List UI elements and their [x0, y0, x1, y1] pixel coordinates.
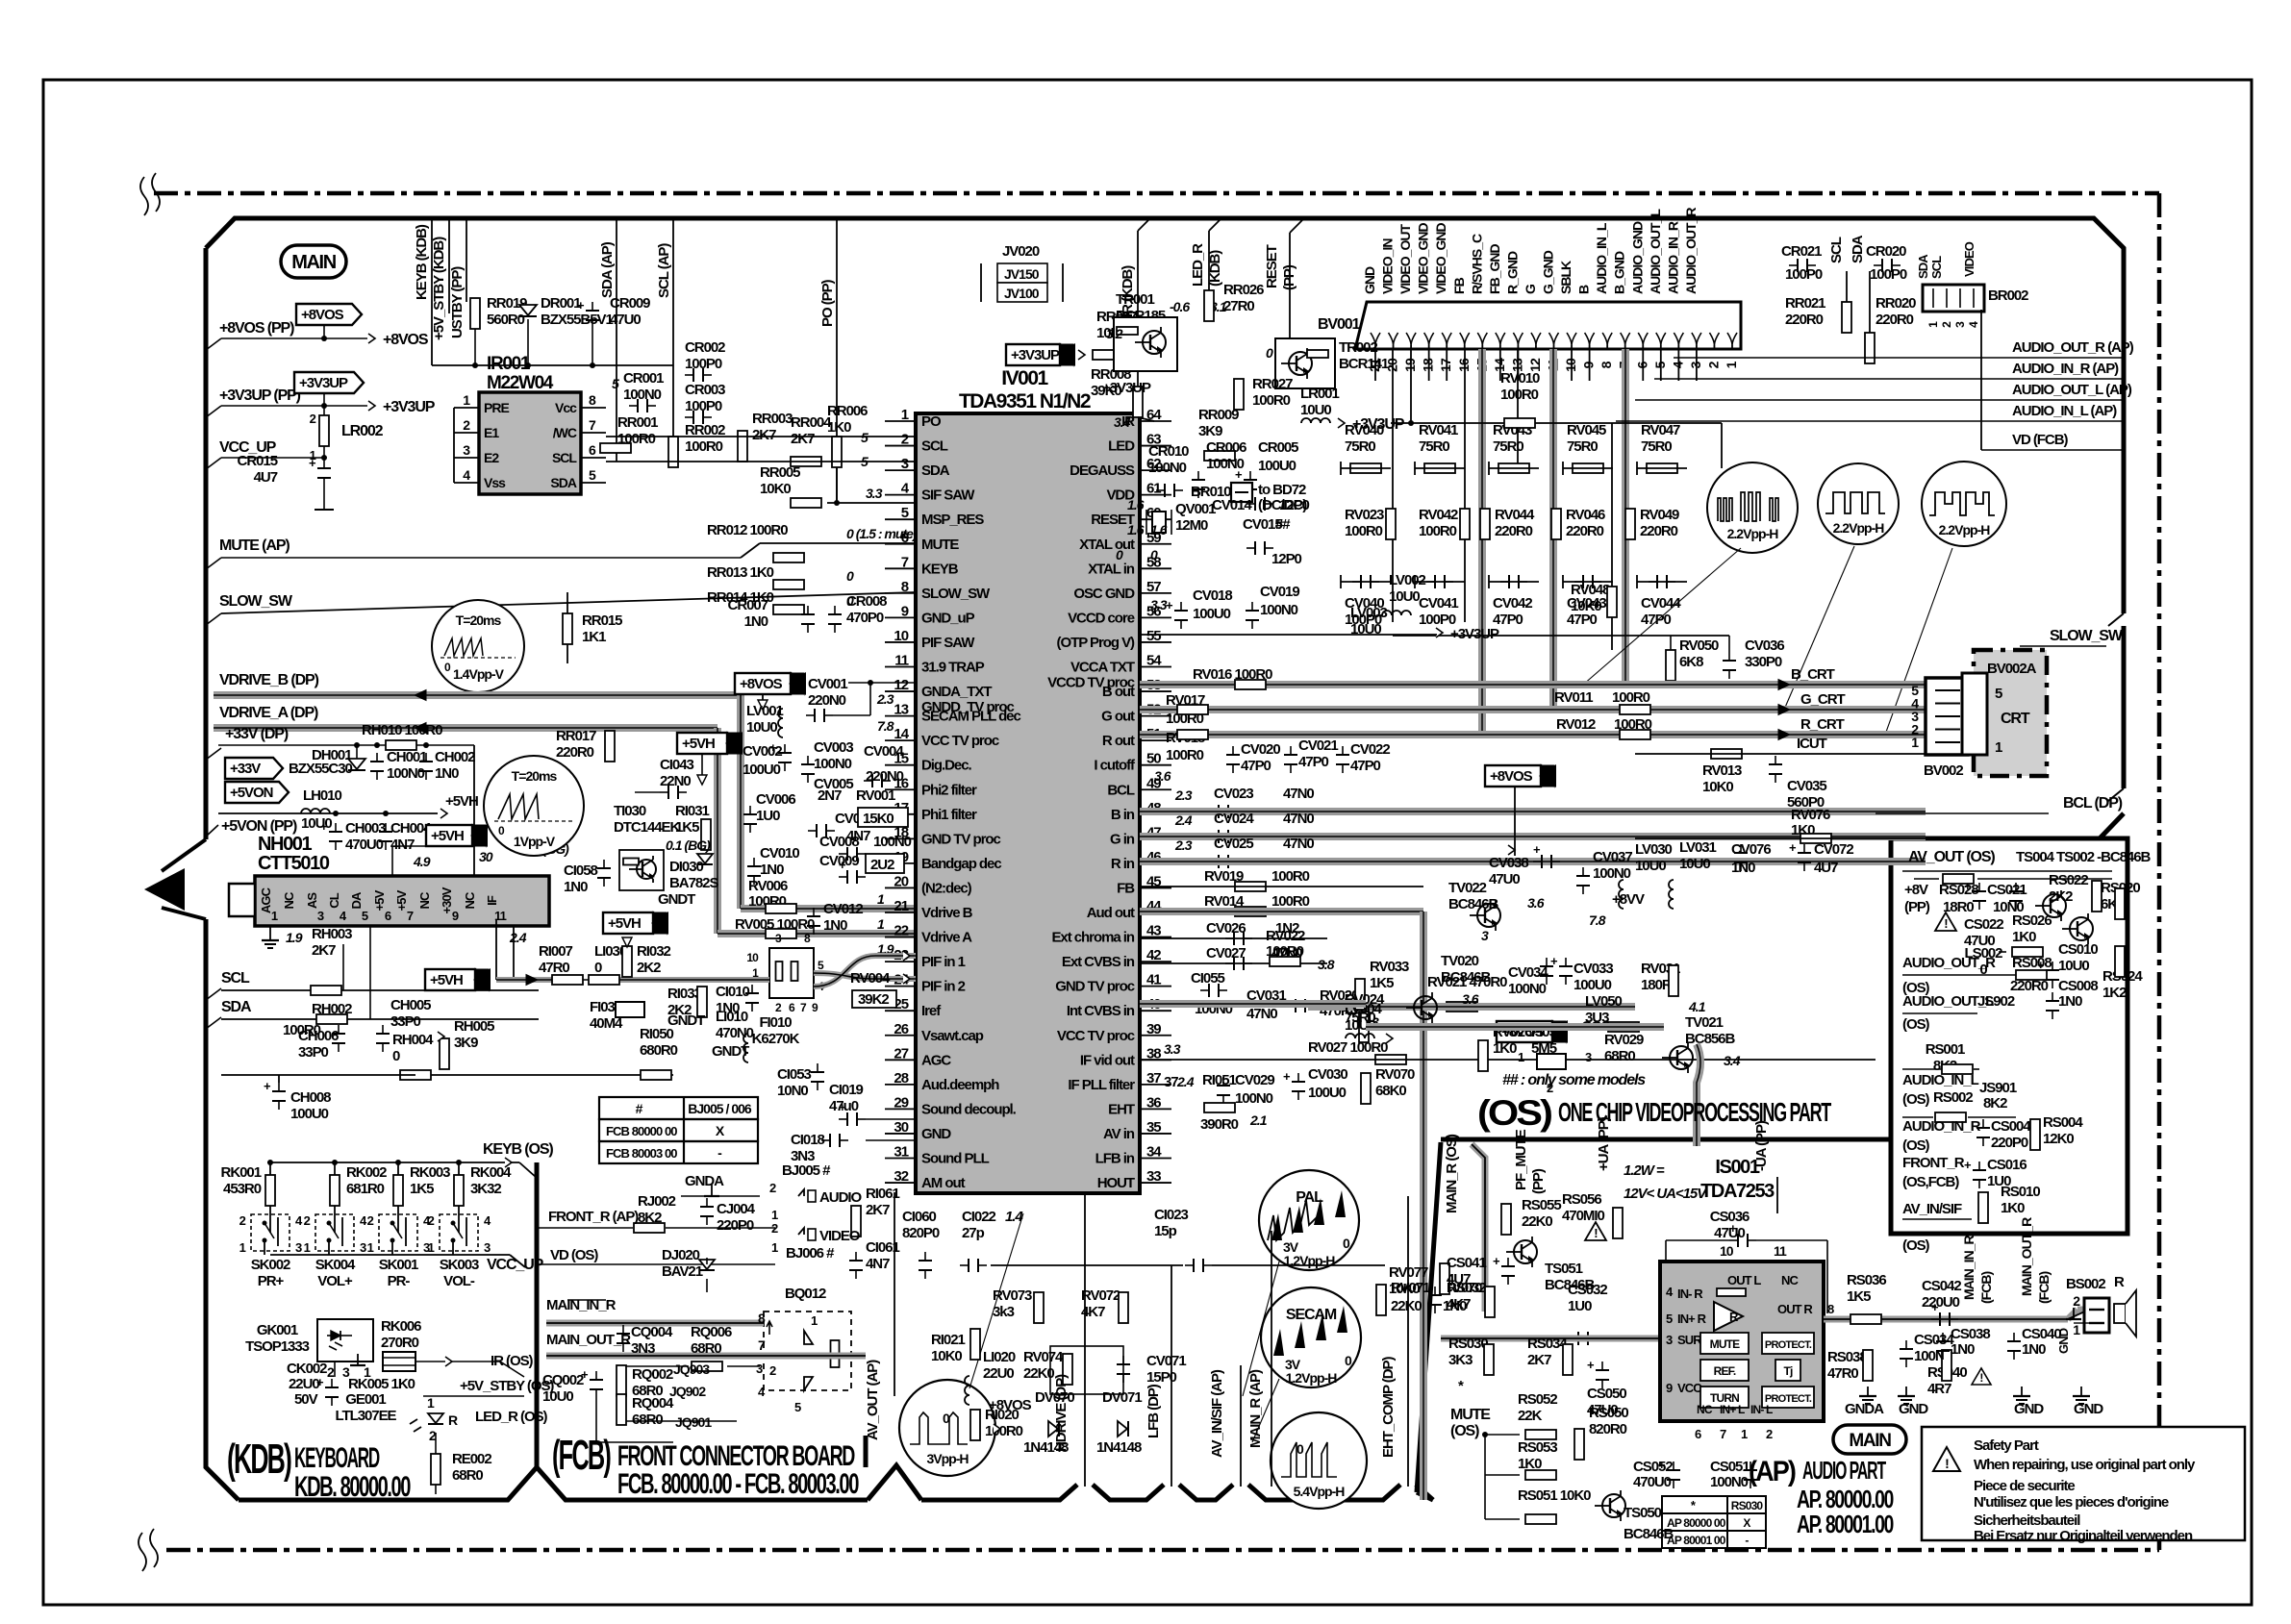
svg-text:PROTECT.: PROTECT.: [1765, 1339, 1812, 1351]
bus R out: [1140, 731, 1926, 738]
jack BJ006: [798, 1228, 804, 1235]
svg-text:BJ005 #: BJ005 #: [782, 1162, 831, 1179]
svg-text:IF PLL filter: IF PLL filter: [1068, 1077, 1135, 1093]
waveform leader SECAM: [1252, 1379, 1279, 1442]
svg-text:(OS): (OS): [1450, 1423, 1479, 1439]
svg-text:RQ006: RQ006: [691, 1324, 732, 1340]
svg-text:CL: CL: [327, 892, 341, 908]
svg-text:RV010: RV010: [1500, 370, 1540, 387]
svg-text:OSC GND: OSC GND: [1073, 586, 1135, 602]
svg-text:AUDIO_OUT_L: AUDIO_OUT_L: [1648, 209, 1663, 294]
svg-text:560R0: 560R0: [487, 312, 525, 328]
svg-text:BV002A: BV002A: [1987, 661, 2037, 677]
svg-text:4.1: 4.1: [1688, 999, 1706, 1014]
svg-text:1N0: 1N0: [2022, 1341, 2046, 1358]
svg-text:3K9: 3K9: [1198, 423, 1222, 439]
svg-text:CH005: CH005: [390, 997, 431, 1013]
svg-text:CV071: CV071: [1146, 1353, 1186, 1369]
svg-text:CS022: CS022: [1964, 916, 2003, 933]
voltage tag +33V: [225, 758, 283, 779]
bus R video down: [1478, 349, 1486, 735]
svg-text:PO (PP): PO (PP): [819, 279, 836, 327]
svg-text:GNDA: GNDA: [1845, 1401, 1884, 1417]
svg-text:100R0: 100R0: [1252, 392, 1291, 409]
waveform circle 2.2Vpp-H comb: [1707, 462, 1798, 553]
svg-text:(AP): (AP): [1749, 1456, 1796, 1487]
svg-text:2K7: 2K7: [866, 1202, 890, 1218]
svg-text:CV036: CV036: [1745, 637, 1784, 654]
svg-text:RI051: RI051: [1202, 1072, 1236, 1088]
svg-text:470P0: 470P0: [846, 610, 884, 626]
svg-text:AUDIO_IN_L: AUDIO_IN_L: [1594, 222, 1609, 294]
svg-text:CR002: CR002: [685, 339, 725, 356]
svg-text:+5V_STBY (KDB): +5V_STBY (KDB): [431, 237, 447, 340]
svg-text:75R0: 75R0: [1567, 438, 1598, 455]
svg-text:2K2: 2K2: [2049, 888, 2073, 905]
svg-text:RV074: RV074: [1023, 1349, 1064, 1365]
svg-text:CV001: CV001: [808, 676, 847, 692]
svg-text:RR006: RR006: [827, 403, 868, 419]
svg-text:FRONT_R (AP): FRONT_R (AP): [548, 1209, 639, 1225]
svg-text:5: 5: [589, 467, 596, 483]
svg-text:(FCB): (FCB): [2036, 1271, 2052, 1304]
connector BR002: [1923, 285, 1984, 312]
svg-text:CS051: CS051: [1710, 1459, 1750, 1475]
wire pin6 +5V: [391, 846, 393, 876]
svg-text:Bandgap dec: Bandgap dec: [921, 856, 1001, 872]
svg-text:ICUT: ICUT: [1797, 736, 1827, 752]
svg-text:X: X: [1743, 1516, 1750, 1530]
svg-text:30: 30: [479, 849, 493, 864]
svg-text:CI060: CI060: [902, 1209, 936, 1225]
svg-text:QV001: QV001: [1175, 501, 1216, 517]
svg-text:1: 1: [367, 1240, 374, 1255]
svg-text:LV031: LV031: [1679, 839, 1717, 856]
svg-text:B in: B in: [1111, 807, 1135, 823]
svg-text:1: 1: [877, 891, 885, 907]
voltage tag +5VH 2: [425, 969, 475, 990]
svg-text:AUDIO_IN_R: AUDIO_IN_R: [1665, 221, 1680, 294]
svg-text:100P0: 100P0: [1870, 266, 1907, 283]
svg-text:RV049: RV049: [1640, 507, 1679, 523]
board boundary dash-dot right: [2157, 193, 2162, 1550]
svg-text:0: 0: [846, 568, 854, 584]
svg-text:DV071: DV071: [1102, 1389, 1142, 1406]
svg-text:+5VH: +5VH: [431, 828, 464, 844]
svg-text:IN- L: IN- L: [1750, 1403, 1773, 1416]
svg-text:2K7: 2K7: [312, 942, 336, 959]
svg-text:SDA: SDA: [221, 999, 252, 1015]
svg-text:47N0: 47N0: [1283, 836, 1314, 852]
svg-text:USTBY (PP): USTBY (PP): [449, 266, 466, 338]
svg-text:CR005: CR005: [1258, 439, 1298, 456]
svg-text:RE002: RE002: [452, 1451, 491, 1467]
svg-text:33P0: 33P0: [298, 1044, 329, 1061]
OS AP divider outline: [1441, 1137, 1891, 1142]
svg-text:SCL: SCL: [552, 450, 577, 465]
svg-text:CS034: CS034: [1914, 1332, 1954, 1348]
svg-text:1: 1: [463, 392, 470, 408]
svg-text:AP 80001 00: AP 80001 00: [1667, 1534, 1726, 1547]
svg-text:CR007: CR007: [728, 597, 768, 613]
svg-text:JV100: JV100: [1004, 286, 1040, 301]
svg-text:!: !: [1945, 1456, 1949, 1471]
svg-text:VCC TV proc: VCC TV proc: [1057, 1028, 1135, 1044]
svg-text:VCC: VCC: [1677, 1381, 1702, 1395]
svg-text:RV050: RV050: [1679, 637, 1719, 654]
wires audio to AP: [1674, 357, 2008, 359]
svg-text:DI030: DI030: [669, 859, 703, 875]
svg-text:1N0: 1N0: [760, 862, 784, 878]
svg-text:CV025: CV025: [1214, 836, 1253, 852]
svg-text:KEYBOARD: KEYBOARD: [294, 1442, 380, 1474]
svg-text:R_GND: R_GND: [1504, 251, 1520, 294]
svg-text:+5VH: +5VH: [682, 736, 715, 752]
waveform circle 5.4Vpp-H: [1271, 1412, 1367, 1509]
svg-text:SDA: SDA: [550, 475, 576, 490]
wire +3V3UP rail: [1391, 422, 1722, 424]
svg-text:CV035: CV035: [1787, 778, 1826, 794]
svg-text:1N4148: 1N4148: [1096, 1439, 1142, 1456]
svg-text:CI010: CI010: [716, 984, 749, 1000]
svg-text:10: 10: [1720, 1243, 1734, 1259]
svg-text:TV020: TV020: [1441, 953, 1479, 969]
svg-text:RR004: RR004: [791, 414, 832, 431]
svg-text:G in: G in: [1110, 831, 1135, 847]
svg-text:RR026: RR026: [1223, 282, 1264, 298]
svg-text:3: 3: [1688, 361, 1703, 368]
svg-text:VIDEO: VIDEO: [819, 1228, 861, 1244]
svg-text:0: 0: [1150, 547, 1158, 562]
svg-text:VDRIVE_B (DP): VDRIVE_B (DP): [219, 672, 319, 688]
svg-text:RS051 10K0: RS051 10K0: [1518, 1487, 1591, 1504]
svg-text:1.9: 1.9: [286, 930, 303, 945]
svg-text:E1: E1: [484, 425, 499, 440]
svg-text:IS001: IS001: [1715, 1157, 1760, 1178]
svg-text:RI021: RI021: [931, 1332, 965, 1348]
svg-text:2.3: 2.3: [1174, 787, 1193, 803]
svg-text:100R0: 100R0: [1500, 387, 1539, 403]
svg-text:GND TV proc: GND TV proc: [921, 831, 1000, 847]
svg-text:68R0: 68R0: [452, 1467, 483, 1484]
svg-text:RK002: RK002: [346, 1164, 387, 1181]
svg-text:Ext chroma in: Ext chroma in: [1051, 930, 1134, 946]
svg-text:XTAL in: XTAL in: [1088, 561, 1135, 577]
svg-text:CV042: CV042: [1493, 595, 1532, 612]
svg-text:BJ006 #: BJ006 #: [786, 1245, 835, 1262]
svg-text:LI010: LI010: [716, 1009, 748, 1025]
svg-text:0: 0: [392, 1048, 400, 1064]
svg-text:RS010: RS010: [2001, 1184, 2040, 1200]
svg-text:270R0: 270R0: [381, 1335, 419, 1351]
resistor RV049: [1625, 509, 1635, 539]
svg-text:IR001: IR001: [487, 354, 531, 374]
svg-text:BC856B: BC856B: [1685, 1031, 1735, 1047]
svg-text:+3V3UP: +3V3UP: [1102, 380, 1151, 396]
svg-text:75R0: 75R0: [1493, 438, 1523, 455]
bus PIF from tuner: [495, 919, 497, 980]
svg-text:LR002: LR002: [341, 423, 384, 439]
svg-text:4.9: 4.9: [413, 854, 431, 869]
svg-text:16: 16: [1456, 358, 1472, 372]
svg-text:RS050: RS050: [1589, 1405, 1628, 1421]
svg-text:CV019: CV019: [1260, 584, 1299, 600]
svg-text:RR013 1K0: RR013 1K0: [707, 564, 774, 581]
svg-text:+3V3UP (PP): +3V3UP (PP): [219, 387, 301, 404]
svg-text:N'utilisez que les pieces d'or: N'utilisez que les pieces d'origine: [1974, 1494, 2169, 1511]
switch SK001: [379, 1214, 417, 1251]
svg-text:RR015: RR015: [582, 612, 622, 629]
svg-text:RR001: RR001: [617, 414, 658, 431]
KDB FCB divider: [535, 1162, 540, 1467]
svg-text:NC: NC: [417, 891, 432, 909]
svg-text:1K0: 1K0: [2001, 1200, 2025, 1216]
svg-text:27p: 27p: [962, 1225, 985, 1241]
svg-text:100U0: 100U0: [1258, 458, 1297, 474]
svg-text:47R0: 47R0: [1827, 1365, 1858, 1382]
svg-text:TR001: TR001: [1116, 291, 1154, 308]
svg-text:2: 2: [769, 1363, 776, 1378]
svg-text:1: 1: [1995, 739, 2002, 756]
connector BV002: [1926, 678, 1968, 755]
svg-text:100U0: 100U0: [1193, 606, 1231, 622]
svg-text:0: 0: [1343, 1236, 1350, 1251]
svg-text:GNDA: GNDA: [685, 1173, 724, 1189]
svg-text:VCCD TV proc: VCCD TV proc: [1047, 675, 1135, 691]
svg-text:+8VOS (PP): +8VOS (PP): [219, 320, 294, 337]
svg-text:3K3: 3K3: [1448, 1352, 1473, 1368]
svg-text:CV027: CV027: [1206, 945, 1246, 962]
svg-text:IF vid out: IF vid out: [1080, 1052, 1135, 1068]
waveform circle T=20ms 1Vpp-V: [484, 756, 584, 856]
svg-text:VIDEO_GND: VIDEO_GND: [1433, 222, 1448, 294]
voltage tag +5VH 3: [603, 912, 653, 934]
svg-text:CV072: CV072: [1814, 841, 1853, 858]
svg-text:2: 2: [1705, 361, 1721, 368]
svg-text:68K0: 68K0: [1375, 1083, 1406, 1099]
svg-text:JQ903: JQ903: [673, 1362, 710, 1377]
svg-text:47P0: 47P0: [1241, 758, 1271, 774]
svg-text:IF: IF: [485, 895, 499, 906]
svg-text:RR017: RR017: [556, 728, 596, 744]
top exit PO (PP): [836, 218, 838, 317]
svg-text:2U2: 2U2: [870, 857, 894, 873]
svg-text:0: 0: [943, 1411, 950, 1426]
svg-text:GND: GND: [1362, 266, 1377, 294]
svg-text:CR020: CR020: [1866, 243, 1906, 260]
svg-text:470U0: 470U0: [345, 837, 384, 853]
switch SK003: [440, 1214, 478, 1251]
svg-text:OUT L: OUT L: [1727, 1273, 1761, 1287]
svg-text:5.4Vpp-H: 5.4Vpp-H: [1294, 1484, 1346, 1499]
svg-text:RV073: RV073: [993, 1287, 1032, 1304]
svg-text:CV008: CV008: [819, 834, 859, 850]
voltage tag +5VON: [225, 782, 289, 803]
svg-text:68R0: 68R0: [632, 1412, 663, 1428]
svg-text:CV012: CV012: [823, 901, 863, 917]
svg-text:(PP): (PP): [1281, 264, 1297, 290]
svg-text:VD (FCB): VD (FCB): [2012, 432, 2068, 448]
svg-text:1: 1: [304, 1240, 311, 1255]
capacitor CV041: [1434, 575, 1436, 588]
svg-text:820P0: 820P0: [902, 1225, 940, 1241]
svg-text:2: 2: [239, 1213, 246, 1228]
svg-text:18: 18: [1421, 358, 1436, 372]
svg-text:AUDIO_OUT_R: AUDIO_OUT_R: [1683, 208, 1699, 294]
svg-text:8: 8: [1827, 1302, 1834, 1316]
svg-text:3: 3: [1481, 928, 1489, 943]
svg-text:BCL: BCL: [1107, 782, 1135, 798]
svg-text:CV014: CV014: [1212, 497, 1252, 513]
svg-text:RS002: RS002: [1933, 1089, 1973, 1106]
svg-text:10U0: 10U0: [542, 1388, 573, 1405]
svg-text:2: 2: [2073, 1293, 2080, 1309]
svg-text:7.8: 7.8: [877, 718, 894, 734]
svg-text:+5V_STBY (OS): +5V_STBY (OS): [460, 1378, 554, 1394]
svg-text:!: !: [1979, 1371, 1982, 1385]
svg-text:2: 2: [771, 1221, 778, 1236]
svg-text:!: !: [1944, 916, 1948, 931]
resistor RV042: [1460, 509, 1470, 539]
svg-text:1N0: 1N0: [435, 765, 459, 782]
svg-text:LH010: LH010: [303, 787, 341, 804]
svg-text:0.1 (BG): 0.1 (BG): [666, 837, 711, 853]
tuner ground: [269, 931, 271, 940]
svg-text:Vdrive A: Vdrive A: [921, 930, 972, 946]
svg-text:KDB. 80000.00: KDB. 80000.00: [294, 1471, 411, 1503]
waveform leader 3Vpp: [969, 1213, 1023, 1388]
top exit +5V_STBY (KDB): [448, 218, 450, 313]
svg-text:AUDIO_OUT_L (AP): AUDIO_OUT_L (AP): [2012, 382, 2132, 398]
svg-text:1: 1: [811, 1313, 818, 1328]
svg-text:0: 0: [1116, 547, 1123, 562]
svg-text:RV048: RV048: [1571, 582, 1610, 598]
svg-text:VIDEO_IN: VIDEO_IN: [1380, 238, 1396, 294]
svg-text:12P0: 12P0: [1271, 551, 1302, 567]
svg-text:LTL307EE: LTL307EE: [335, 1408, 396, 1424]
svg-text:LED_R: LED_R: [1190, 243, 1206, 287]
svg-text:3.4: 3.4: [1724, 1053, 1741, 1068]
waveform circle 2.2Vpp-H steps1: [1818, 463, 1899, 544]
svg-text:(KDB): (KDB): [227, 1436, 291, 1483]
svg-text:RS022: RS022: [2049, 872, 2088, 888]
capacitor CR009: [586, 310, 599, 312]
svg-text:220N0: 220N0: [866, 768, 904, 785]
svg-text:AUDIO_IN_R: AUDIO_IN_R: [1902, 1118, 1981, 1135]
svg-text:2: 2: [428, 1213, 435, 1228]
svg-text:12P0: 12P0: [1279, 497, 1310, 513]
svg-text:RK001: RK001: [221, 1164, 262, 1181]
svg-text:Phi1 filter: Phi1 filter: [921, 807, 977, 823]
svg-text:-0.6: -0.6: [1170, 299, 1190, 314]
svg-text:AUDIO_IN_L (AP): AUDIO_IN_L (AP): [2012, 403, 2117, 419]
warning triangle AP1: [1585, 1222, 1606, 1240]
svg-text:1K0: 1K0: [827, 419, 851, 436]
break mark top-left: [140, 173, 160, 215]
svg-text:(OS,FCB): (OS,FCB): [1902, 1174, 1959, 1190]
svg-text:RR020: RR020: [1876, 295, 1916, 312]
svg-text:100R0: 100R0: [1345, 523, 1383, 539]
svg-text:8: 8: [589, 392, 596, 408]
svg-text:+8VOS: +8VOS: [989, 1397, 1032, 1413]
svg-text:#: #: [636, 1101, 643, 1116]
MAIN oval AP: [1833, 1425, 1906, 1454]
svg-text:100N0: 100N0: [1710, 1474, 1749, 1490]
svg-text:12K0: 12K0: [2043, 1131, 2074, 1147]
IC IV001 TDA9351 body: [916, 413, 1140, 1193]
wire tuner IF down: [513, 926, 515, 980]
svg-text:AV_OUT (OS): AV_OUT (OS): [1908, 849, 1995, 865]
svg-text:Dig.Dec.: Dig.Dec.: [921, 758, 971, 774]
svg-text:2: 2: [304, 1213, 311, 1228]
svg-text:453R0: 453R0: [223, 1181, 262, 1197]
waveform circle T=20ms 1.4Vpp-V: [432, 600, 524, 692]
bottom exit wires: [1084, 1192, 1086, 1487]
svg-text:+3V3UP: +3V3UP: [299, 375, 348, 391]
svg-text:+8V: +8V: [1904, 882, 1928, 898]
svg-text:AM out: AM out: [921, 1175, 966, 1191]
svg-text:+8VOS: +8VOS: [1490, 768, 1533, 785]
svg-text:1N0: 1N0: [2058, 993, 2082, 1010]
svg-text:CR009: CR009: [610, 295, 650, 312]
capacitor CV044: [1656, 575, 1658, 588]
svg-text:1: 1: [2073, 1322, 2080, 1337]
svg-text:GNDT: GNDT: [712, 1043, 749, 1060]
svg-text:1U0: 1U0: [1568, 1298, 1592, 1314]
svg-text:IN- R: IN- R: [1677, 1287, 1703, 1301]
svg-text:220R0: 220R0: [1876, 312, 1914, 328]
svg-text:AS: AS: [305, 892, 319, 909]
warning triangle AP2: [1972, 1368, 1991, 1385]
svg-text:5: 5: [861, 430, 869, 445]
svg-text:47N0: 47N0: [1246, 1006, 1277, 1022]
svg-text:PIF SAW: PIF SAW: [921, 635, 975, 651]
svg-text:SLOW_SW: SLOW_SW: [219, 593, 293, 610]
svg-text:B: B: [1576, 285, 1592, 294]
svg-text:CV010: CV010: [760, 845, 799, 862]
top exit KEYB (KDB): [431, 218, 433, 365]
svg-text:220P0: 220P0: [1991, 1135, 2028, 1151]
svg-text:RV046: RV046: [1566, 507, 1605, 523]
svg-text:+3V3UP: +3V3UP: [1011, 347, 1060, 363]
svg-text:GND: GND: [2014, 1401, 2044, 1417]
top exit SDA (AP): [616, 218, 617, 288]
svg-text:3.3: 3.3: [1150, 597, 1168, 612]
svg-text:5: 5: [612, 376, 619, 391]
svg-text:MUTE: MUTE: [921, 537, 959, 553]
svg-text:1: 1: [1724, 361, 1739, 368]
svg-text:RK005 1K0: RK005 1K0: [348, 1376, 415, 1392]
resistor RV046: [1551, 509, 1561, 539]
svg-text:REF.: REF.: [1714, 1364, 1736, 1378]
svg-text:22U0: 22U0: [983, 1365, 1014, 1382]
svg-text:220R0: 220R0: [1566, 523, 1604, 539]
svg-text:BAV21: BAV21: [662, 1263, 703, 1280]
svg-text:RK004: RK004: [470, 1164, 512, 1181]
svg-text:RS056: RS056: [1562, 1191, 1601, 1208]
svg-text:4R7: 4R7: [1927, 1381, 1951, 1397]
svg-text:330P0: 330P0: [1745, 654, 1782, 670]
svg-text:(OS): (OS): [1902, 1091, 1930, 1108]
MAIN board label oval: [281, 245, 346, 278]
svg-text:RV033: RV033: [1370, 959, 1409, 975]
svg-text:9: 9: [452, 909, 459, 923]
svg-text:1Vpp-V: 1Vpp-V: [514, 834, 556, 849]
svg-text:LV050: LV050: [1585, 993, 1623, 1010]
svg-text:CH002: CH002: [435, 749, 475, 765]
svg-text:5: 5: [1995, 686, 2002, 702]
svg-text:2: 2: [367, 1213, 374, 1228]
